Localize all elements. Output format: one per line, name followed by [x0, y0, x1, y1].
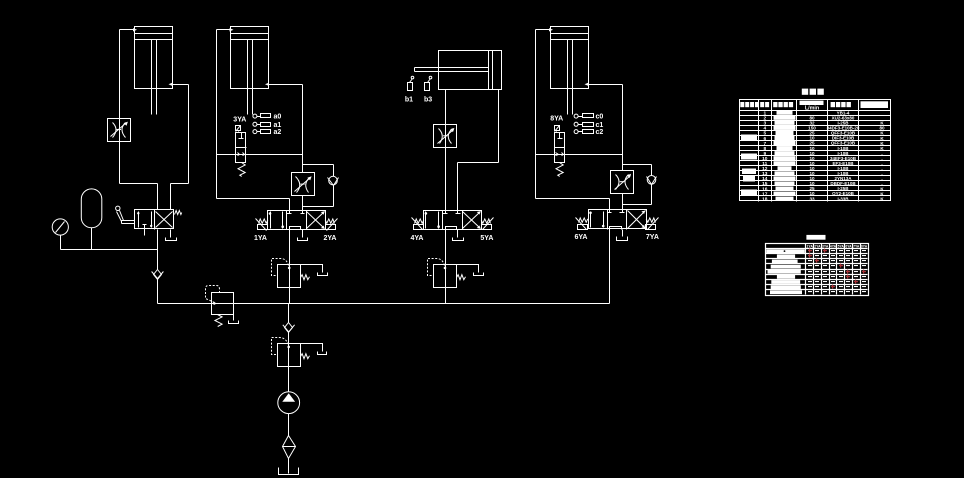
sequence table step labels [766, 249, 805, 294]
pump P1 [278, 392, 300, 414]
sequence table cells [808, 249, 866, 293]
label 1YA [254, 235, 267, 242]
label b1 [405, 97, 413, 104]
table parts list title [802, 89, 824, 95]
svg-text:7YA: 7YA [646, 234, 659, 241]
sensor c0 [574, 114, 603, 121]
wire RV2 to main line [289, 265, 291, 304]
wire to valve V2 port A [217, 199, 290, 211]
svg-text:b1: b1 [405, 97, 413, 104]
svg-text:I-33B: I-33B [837, 196, 849, 201]
relief valve RF1 [206, 286, 239, 327]
wire CY2 cap port down [217, 30, 231, 199]
svg-text:1YA: 1YA [807, 244, 814, 248]
pressure gauge [52, 219, 68, 250]
svg-text:L/min: L/min [805, 105, 819, 111]
wire bypass line group 2 [217, 154, 303, 156]
wire V4 port P down to main line [609, 230, 611, 304]
wire CY3 right port to valve V3 port B [458, 90, 499, 211]
sequence table header labels [807, 244, 868, 248]
tank under valve V2 [298, 230, 308, 241]
svg-text:c2: c2 [596, 129, 604, 136]
label 6YA [575, 234, 588, 241]
pressure valve RV4 [272, 338, 327, 367]
cylinder CY4 [551, 27, 589, 115]
label b3 [424, 97, 432, 104]
directional valve V2 [256, 211, 338, 231]
wire CY3 left port to FV3 [445, 90, 447, 125]
wire FV2 to valve V2 port B [302, 196, 304, 211]
tank under valve V3 [453, 230, 464, 241]
svg-text:a2: a2 [274, 129, 282, 136]
svg-text:5YA: 5YA [480, 235, 493, 242]
check valve CK5 [283, 304, 295, 344]
arrow into CY4 cap port [549, 28, 553, 31]
limit switch b1 [408, 76, 414, 90]
cylinder CY1 [135, 27, 173, 115]
wire CK4 return [623, 185, 652, 205]
wire RV3 to main line [445, 265, 447, 304]
solenoid bypass valve 3YA [236, 126, 247, 177]
table parts list header [740, 101, 888, 112]
wire to valve V4 port A [536, 199, 610, 210]
svg-text:c1: c1 [596, 122, 604, 129]
svg-text:4YA: 4YA [830, 244, 837, 248]
wire pump suction [288, 414, 290, 436]
label 4YA [411, 235, 424, 242]
flow control valve FV1 [108, 119, 131, 142]
solenoid bypass valve 8YA [555, 126, 565, 177]
svg-text:3YA: 3YA [233, 116, 246, 123]
label 5YA [480, 235, 493, 242]
wire FV3 to valve V3 port A [445, 148, 447, 211]
wire filter to tank [288, 459, 290, 474]
tank under hand valve T port [166, 230, 177, 241]
sensor a2 [253, 129, 281, 136]
accumulator [81, 189, 102, 250]
svg-text:3YA: 3YA [822, 244, 829, 248]
svg-text:2YA: 2YA [814, 244, 821, 248]
wire bypass line group 4 [536, 154, 623, 156]
directional valve V3 [412, 211, 494, 230]
hand lever valve HV1 [116, 206, 182, 235]
wire CK2 return [303, 186, 334, 207]
wire CY4 rod port down [589, 85, 623, 171]
svg-text:7YA: 7YA [853, 244, 860, 248]
limit switch b3 [425, 76, 432, 90]
table parts list rows [762, 110, 885, 202]
wire hand valve P port down [157, 230, 159, 270]
wire RV4 to pump [288, 344, 290, 392]
cylinder CY3 [415, 51, 502, 90]
table parts list frame [740, 100, 891, 202]
svg-text:a0: a0 [274, 114, 282, 121]
svg-text:1YA: 1YA [254, 235, 267, 242]
arrow into CY2 cap port [230, 28, 234, 31]
flow control valve FV3 [434, 125, 457, 148]
svg-text:4YA: 4YA [411, 235, 424, 242]
check valve CK2 [328, 176, 339, 185]
wire V3 port P down [445, 230, 447, 265]
sensor a0 [253, 114, 281, 121]
svg-text:33: 33 [809, 196, 815, 201]
wire gauge-accumulator manifold [61, 249, 158, 251]
wire V2 port P down [289, 230, 291, 265]
arrow into CY1 cap port [133, 28, 137, 31]
wire FV1 to hand valve port A [120, 142, 158, 210]
svg-text:a1: a1 [274, 122, 282, 129]
sequence table frame [766, 244, 869, 296]
svg-text:b3: b3 [424, 97, 432, 104]
wire to check valve CK2 [303, 165, 334, 177]
table parts list group labels [741, 135, 757, 196]
tank reservoir [279, 468, 299, 475]
sensor c1 [574, 122, 603, 129]
svg-text:8YA: 8YA [550, 116, 563, 123]
svg-text:5YA: 5YA [838, 244, 845, 248]
pressure reducing valve RV2 [272, 259, 328, 288]
wire CY4 cap port down [536, 30, 551, 199]
wire CK1 to main pressure line [157, 280, 159, 304]
cylinder CY2 [231, 27, 269, 115]
label 2YA [324, 235, 337, 242]
directional valve V4 [576, 210, 659, 230]
check valve CK4 [647, 176, 657, 185]
svg-text:6YA: 6YA [845, 244, 852, 248]
check valve CK1 [152, 270, 164, 280]
flow control valve FV4 [611, 171, 634, 194]
flow control valve FV2 [292, 173, 315, 196]
sensor c2 [574, 129, 603, 136]
tank under valve V4 [617, 230, 628, 241]
wire FV4 to valve V4 port B [622, 194, 624, 210]
label 8YA [550, 116, 563, 123]
svg-text:c0: c0 [596, 114, 604, 121]
wire to check valve CK4 [623, 165, 652, 176]
svg-text:6YA: 6YA [575, 234, 588, 241]
wire CY1 cap port to flow valve FV1 [120, 30, 135, 119]
label 7YA [646, 234, 659, 241]
svg-text:2YA: 2YA [324, 235, 337, 242]
filter F1 [283, 436, 296, 459]
pressure reducing valve RV3 [428, 259, 484, 288]
sensor a1 [253, 122, 281, 129]
label 3YA [233, 116, 246, 123]
svg-text:18: 18 [762, 196, 768, 202]
main pressure line [158, 303, 610, 305]
arrow into CY1 rod port [169, 83, 173, 86]
wire CY1 rod port to hand valve port B [171, 85, 189, 210]
arrow into CY2 rod port [265, 83, 269, 86]
wire CY2 rod port down [269, 85, 303, 173]
svg-text:8YA: 8YA [861, 244, 868, 248]
arrow into CY4 rod port [585, 83, 589, 86]
sequence table title [806, 235, 825, 240]
